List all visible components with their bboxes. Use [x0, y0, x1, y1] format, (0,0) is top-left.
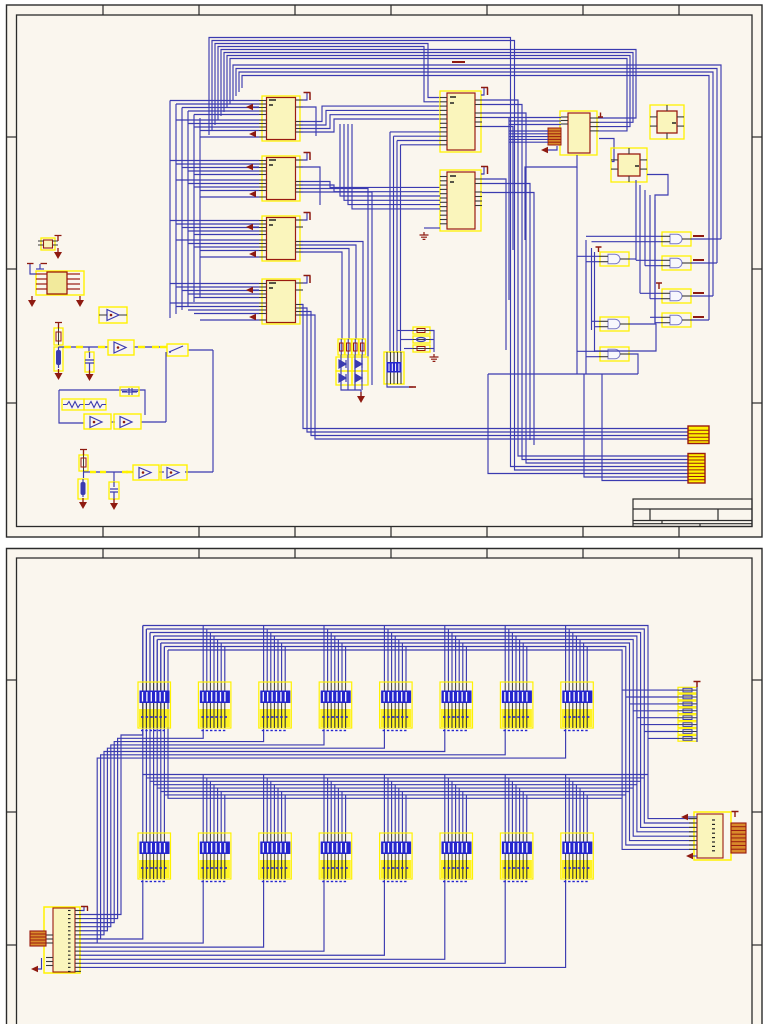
Y1 VCC [55, 236, 62, 242]
J1 socket on U7 [548, 128, 561, 145]
jumper ground [430, 354, 439, 361]
U7 bottom wire [525, 155, 577, 240]
sheet 1 zone ticks [7, 5, 763, 537]
resistor network RN10 [198, 833, 231, 882]
U4 port arrow A [246, 287, 253, 293]
page2 main bus loop [143, 626, 694, 850]
U5 counter [440, 91, 482, 152]
J5 exit arrow [38, 958, 42, 969]
connector J2 [384, 352, 404, 384]
U5 input wires / feeds down to J2 [390, 132, 440, 353]
sheet 1 background [7, 5, 763, 537]
U6 outputs to bus V4 [482, 179, 534, 445]
gate G3 VCC [656, 283, 662, 289]
U1 input wires [170, 101, 259, 138]
gate output wires [488, 239, 721, 374]
U4 input wires [170, 284, 259, 321]
U2 output bundle to U6 [301, 182, 441, 386]
J5 plug [30, 931, 46, 946]
resistor network RN6 [440, 682, 473, 731]
U1 output bundle to U5 [301, 106, 441, 132]
U4 port arrow B [249, 314, 256, 320]
J1 socket input bundle [509, 118, 561, 143]
resistor network RN13 [380, 833, 413, 882]
Y1 ground [57, 248, 59, 252]
sheet 2 inner border [17, 558, 753, 1024]
resistor network RN1 [138, 682, 171, 731]
U9 regulator [611, 148, 647, 182]
U3 port arrow B [249, 251, 256, 257]
amplifier A2 [108, 340, 134, 355]
U1 VCC pin [303, 93, 311, 101]
page2 top row output staircase [81, 728, 566, 943]
gate G3 [661, 289, 692, 303]
J5 pin1 VCC [81, 907, 84, 911]
jumper JP1 [413, 327, 430, 334]
J2 bottom wire [387, 384, 413, 387]
amplifier A4 [114, 414, 141, 429]
LED D4 [352, 371, 368, 385]
left vertical bus V1 [170, 101, 200, 319]
J6 plug [731, 823, 746, 853]
sheet 2 zone ticks [7, 549, 763, 946]
gate G5 VCC [596, 247, 602, 252]
amplifier A3 [84, 414, 111, 429]
U1 port arrow B [249, 131, 256, 137]
gate input bus wires [577, 167, 661, 374]
resistor network RN2 [198, 682, 231, 731]
U3 VCC pin [303, 213, 311, 221]
filter loop net [59, 352, 166, 423]
J6 entry arrow top [681, 814, 688, 820]
jumper JP2 [413, 336, 430, 343]
connector J6 [689, 812, 731, 860]
U4 VCC pin [303, 276, 311, 284]
chain1 net [59, 347, 214, 472]
page2 top row drops [143, 626, 587, 683]
resistor network RN15 [500, 833, 533, 882]
ground below U6 [420, 232, 429, 239]
U1 port arrow A [246, 104, 253, 110]
jumper wires [398, 331, 435, 353]
yellow net highlights chain2 [90, 471, 132, 474]
U2 VCC pin [303, 153, 311, 161]
page2 bottom row output staircase [81, 879, 566, 967]
U2 shift register [259, 156, 303, 201]
U7 driver [560, 111, 599, 155]
U6 VCC pin [481, 167, 484, 174]
gate G4 [661, 313, 692, 327]
amplifier A5 [133, 465, 159, 480]
connector J3 [688, 426, 709, 444]
U2 input wires [170, 161, 259, 198]
pull-up resistor wires [622, 682, 697, 742]
pull-up resistors R10-R17 [678, 687, 697, 741]
gate output net labels [693, 236, 704, 317]
LED D1 [336, 357, 352, 371]
yellow net highlights chain1 [64, 346, 167, 349]
sheet 1 inner border [17, 15, 753, 527]
gate G5 [599, 252, 630, 266]
resistor R7 [84, 399, 106, 410]
resistor network RN8 [561, 682, 594, 731]
capacitor C3 [120, 387, 139, 396]
resistor network RN9 [138, 833, 171, 882]
J6 entry arrow bottom [686, 853, 693, 859]
U3 input wires [170, 221, 259, 258]
C5 ground [113, 499, 115, 503]
bus V4 verticals to J4 [488, 374, 688, 481]
capacitor C1 electrolytic [54, 347, 63, 371]
C2 ground [89, 370, 91, 374]
R5 VCC [55, 323, 62, 329]
LED D2 [352, 357, 368, 371]
chain2 net [84, 471, 214, 482]
amplifier A6 [161, 465, 187, 480]
gate G2 [661, 256, 692, 270]
bus T1 nested top run [209, 38, 688, 471]
resistor network RN14 [440, 833, 473, 882]
U4 output bundle to J3 [301, 305, 689, 440]
U5 VCC pin [481, 88, 484, 95]
bus T2 top run to U7 outputs [221, 50, 636, 131]
bus branch wires [301, 107, 321, 205]
buffer A1 [99, 307, 127, 323]
U3 port arrow A [246, 224, 253, 230]
U3 shift register [259, 216, 303, 261]
gate G1 [661, 232, 692, 246]
resistor network RN7 [500, 682, 533, 731]
sheet 2 background [7, 549, 763, 1024]
jumper JP3 [413, 345, 430, 352]
C4 ground [82, 498, 84, 502]
resistor R5 [54, 328, 63, 345]
resistor network RN4 [319, 682, 352, 731]
U7 VCC pin [598, 113, 603, 118]
pull-up VCC [694, 682, 701, 688]
resistor network RN5 [380, 682, 413, 731]
bus T3 top run to gate outputs [233, 65, 721, 320]
U10 ground left [31, 296, 33, 300]
net label top [452, 61, 465, 63]
resistor network RN16 [561, 833, 594, 882]
U7 entry arrow [541, 147, 548, 153]
U2 port arrow A [246, 164, 253, 170]
U9 connection wires [647, 175, 668, 325]
connector J5 [44, 907, 81, 973]
resistor R6 [62, 399, 84, 410]
connector J4 [688, 454, 705, 484]
R8 VCC [80, 450, 87, 456]
switch S1 [167, 344, 188, 356]
U7 to U9 wire [599, 139, 614, 162]
U3 output bundle to LED resistors [301, 242, 364, 340]
title block [633, 499, 752, 527]
J6 VCC [732, 812, 739, 818]
resistor network RN11 [259, 833, 292, 882]
resistor network RN3 [259, 682, 292, 731]
optocoupler U10 [36, 271, 84, 295]
gate G6 [599, 317, 630, 331]
page2 bottom row drops [143, 775, 587, 834]
U1 shift register [259, 96, 303, 141]
U5 outputs to bus V4 [482, 100, 688, 463]
U6 input wires [340, 124, 440, 209]
capacitor C2 [85, 352, 94, 372]
U4 shift register [259, 279, 303, 324]
U2 port arrow B [249, 191, 256, 197]
U10 top wires [30, 264, 44, 274]
U8 oscillator [650, 105, 684, 139]
resistor pack R1-R4 [338, 339, 366, 355]
gate G7 [599, 347, 630, 361]
U6 counter [440, 170, 482, 231]
capacitor C5 [109, 482, 119, 499]
resistor network RN12 [319, 833, 352, 882]
capacitor C4 electrolytic [78, 479, 88, 499]
LED D3 [336, 371, 352, 385]
crystal Y1 [38, 238, 58, 250]
C1 ground [58, 369, 60, 373]
LED cluster wires [341, 355, 362, 396]
resistor R8 [79, 455, 88, 471]
LED cluster ground [360, 392, 362, 396]
U10 ground right [79, 296, 81, 300]
